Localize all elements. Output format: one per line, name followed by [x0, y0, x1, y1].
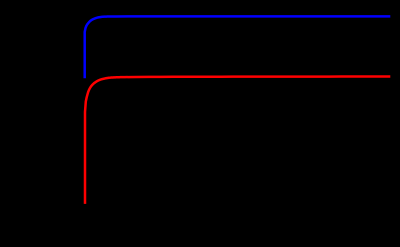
blue curve (upper saturating curve, asymptote y=16): [85, 16, 391, 78]
red curve (lower saturating curve, asymptote y=76): [85, 77, 390, 204]
